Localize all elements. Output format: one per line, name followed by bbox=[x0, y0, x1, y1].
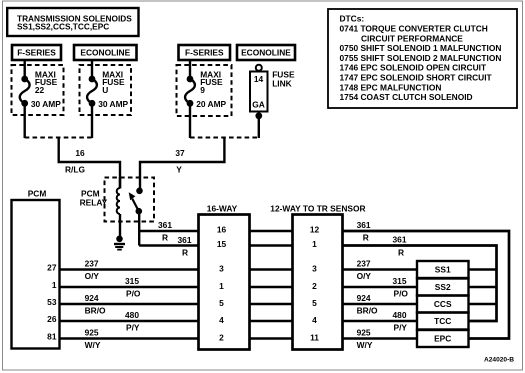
net label 237 O/Y (left) bbox=[85, 259, 100, 282]
svg-text:12: 12 bbox=[310, 225, 320, 235]
wires 16-WAY to 12-WAY (7 rows) bbox=[250, 231, 293, 339]
wire relay switch to rows A/B bbox=[138, 211, 140, 246]
svg-text:11: 11 bbox=[310, 333, 319, 343]
svg-text:3: 3 bbox=[219, 264, 224, 274]
maxi fuse 22 element bbox=[20, 76, 30, 107]
svg-text:5: 5 bbox=[219, 298, 224, 308]
svg-text:P/O: P/O bbox=[126, 289, 141, 299]
svg-text:924: 924 bbox=[85, 293, 99, 303]
svg-text:PCM: PCM bbox=[28, 189, 47, 199]
wire 924 BR/O (PCM 53 to 16-WAY 5) bbox=[60, 303, 199, 305]
svg-text:4: 4 bbox=[312, 315, 317, 325]
svg-text:9: 9 bbox=[200, 85, 205, 95]
svg-text:16: 16 bbox=[75, 148, 85, 158]
svg-text:480: 480 bbox=[125, 310, 139, 320]
svg-text:P/O: P/O bbox=[394, 289, 409, 299]
svg-text:1: 1 bbox=[312, 239, 317, 249]
svg-text:0741 TORQUE CONVERTER CLUTCH: 0741 TORQUE CONVERTER CLUTCH bbox=[340, 24, 488, 34]
svg-text:R: R bbox=[162, 233, 168, 243]
svg-text:1: 1 bbox=[219, 281, 224, 291]
svg-text:BR/O: BR/O bbox=[85, 306, 106, 316]
svg-text:GA: GA bbox=[252, 99, 265, 109]
svg-text:1746 EPC SOLENOID OPEN CIRCUIT: 1746 EPC SOLENOID OPEN CIRCUIT bbox=[340, 63, 487, 73]
wire 361 R row A (relay to 16-WAY) bbox=[139, 230, 198, 232]
value label MAXI FUSE 22 30 AMP bbox=[31, 69, 61, 109]
svg-text:W/Y: W/Y bbox=[85, 340, 101, 350]
value label MAXI FUSE U 30 AMP bbox=[98, 69, 128, 109]
svg-text:27: 27 bbox=[47, 263, 57, 273]
splice bracket (right, dashed) bbox=[190, 137, 259, 139]
value label FUSE LINK bbox=[272, 70, 295, 89]
net label 315 P/O (right) bbox=[393, 276, 409, 299]
net label 37 Y bbox=[175, 148, 185, 175]
wire 480 P/Y (PCM 26 to 16-WAY 4) bbox=[60, 320, 199, 322]
svg-text:ECONOLINE: ECONOLINE bbox=[80, 48, 130, 58]
svg-text:16: 16 bbox=[217, 225, 227, 235]
solenoid CCS bbox=[417, 296, 469, 313]
svg-text:LINK: LINK bbox=[272, 78, 292, 88]
svg-text:0750 SHIFT SOLENOID 1 MALFUNCT: 0750 SHIFT SOLENOID 1 MALFUNCTION bbox=[340, 43, 502, 53]
net label 361 R (row B left) bbox=[178, 235, 192, 257]
ground (relay coil) bbox=[114, 236, 125, 250]
svg-text:A24020-B: A24020-B bbox=[484, 357, 514, 364]
net label 924 BR/O (right) bbox=[357, 293, 378, 316]
title box TRANSMISSION SOLENOIDS bbox=[7, 8, 138, 36]
svg-text:R: R bbox=[363, 233, 369, 243]
net label 16 R/LG bbox=[65, 148, 85, 175]
net label 480 P/Y (right) bbox=[393, 310, 408, 333]
wire fuse link to splice bracket bbox=[258, 116, 260, 138]
svg-text:924: 924 bbox=[357, 293, 371, 303]
fuse link 14 GA element bbox=[250, 65, 268, 120]
svg-text:F-SERIES: F-SERIES bbox=[17, 48, 56, 58]
connector 16-WAY box bbox=[199, 215, 250, 350]
svg-text:CIRCUIT PERFORMANCE: CIRCUIT PERFORMANCE bbox=[361, 33, 463, 43]
PCM relay label bbox=[80, 189, 108, 208]
wire fuse 22 to splice bracket bbox=[24, 103, 26, 138]
svg-text:237: 237 bbox=[85, 259, 99, 269]
svg-text:361: 361 bbox=[357, 220, 371, 230]
wire 315 P/O (PCM 1 to 16-WAY 1) bbox=[60, 286, 199, 288]
wire 924 BR/O (12-WAY 5 to CCS) bbox=[343, 303, 418, 305]
svg-text:5: 5 bbox=[312, 298, 317, 308]
connector label ECONOLINE (left) bbox=[74, 45, 137, 60]
maxi fuse 9 element bbox=[185, 76, 195, 107]
solenoid TCC bbox=[417, 313, 469, 330]
svg-text:W/Y: W/Y bbox=[357, 340, 373, 350]
solenoid SS1 bbox=[417, 261, 469, 278]
svg-text:4: 4 bbox=[219, 315, 224, 325]
wire 361 R row A (12-WAY 12 to EPC feed) bbox=[343, 231, 510, 339]
relay switch contact bbox=[129, 188, 143, 215]
connector 12-WAY box bbox=[293, 215, 343, 350]
wire 16 R/LG (fuses to relay coil) bbox=[59, 138, 120, 189]
svg-text:TCC: TCC bbox=[434, 316, 451, 326]
solenoid SS2 bbox=[417, 279, 469, 296]
connector label ECONOLINE (right) bbox=[237, 45, 295, 60]
svg-text:DTCs:: DTCs: bbox=[340, 14, 365, 24]
svg-text:Y: Y bbox=[176, 165, 182, 175]
svg-text:0755 SHIFT SOLENOID 2 MALFUNCT: 0755 SHIFT SOLENOID 2 MALFUNCTION bbox=[340, 53, 502, 63]
svg-text:1748 EPC MALFUNCTION: 1748 EPC MALFUNCTION bbox=[340, 82, 442, 92]
wire from ECONOLINE to fuse U bbox=[91, 60, 93, 79]
svg-text:925: 925 bbox=[357, 328, 371, 338]
wire from F-SERIES to fuse 9 bbox=[189, 60, 191, 79]
maxi fuse U element bbox=[87, 76, 97, 107]
svg-text:P/Y: P/Y bbox=[126, 323, 140, 333]
svg-text:1754 COAST CLUTCH SOLENOID: 1754 COAST CLUTCH SOLENOID bbox=[340, 92, 473, 102]
wire 361 R row B (12-WAY 1 to solenoid feed bus) bbox=[343, 246, 497, 322]
svg-text:26: 26 bbox=[47, 314, 57, 324]
net label 480 P/Y (left) bbox=[125, 310, 140, 333]
svg-text:BR/O: BR/O bbox=[357, 306, 378, 316]
svg-text:O/Y: O/Y bbox=[357, 271, 372, 281]
maxi fuse 22 dashed enclosure bbox=[12, 65, 64, 115]
wire SS2 to feed bus bbox=[469, 286, 497, 288]
wire 237 O/Y (PCM 27 to 16-WAY 3) bbox=[60, 268, 199, 270]
svg-text:30 AMP: 30 AMP bbox=[98, 99, 128, 109]
svg-text:22: 22 bbox=[35, 85, 45, 95]
svg-text:15: 15 bbox=[217, 239, 227, 249]
svg-text:315: 315 bbox=[125, 276, 139, 286]
splice bracket (left, dashed) bbox=[25, 137, 93, 139]
svg-text:EPC: EPC bbox=[434, 334, 451, 344]
PCM box bbox=[12, 200, 60, 349]
wire from F-SERIES to fuse 22 bbox=[24, 60, 26, 79]
svg-text:37: 37 bbox=[175, 148, 185, 158]
wire fuse U to splice bracket bbox=[91, 103, 93, 138]
svg-text:ECONOLINE: ECONOLINE bbox=[241, 48, 291, 58]
svg-text:30 AMP: 30 AMP bbox=[31, 99, 61, 109]
net label 925 W/Y (left) bbox=[85, 328, 101, 351]
value label MAXI FUSE 9 20 AMP bbox=[196, 69, 226, 109]
svg-text:1: 1 bbox=[52, 280, 57, 290]
wire 925 W/Y (PCM 81 to 16-WAY 2) bbox=[60, 337, 199, 339]
svg-text:O/Y: O/Y bbox=[85, 271, 100, 281]
svg-text:315: 315 bbox=[393, 276, 407, 286]
wire fuse 9 to splice bracket bbox=[189, 103, 191, 138]
svg-text:925: 925 bbox=[85, 328, 99, 338]
relay coil bbox=[117, 177, 120, 236]
wire 480 P/Y (12-WAY 4 to TCC) bbox=[343, 320, 418, 322]
svg-text:20 AMP: 20 AMP bbox=[196, 99, 226, 109]
svg-text:R: R bbox=[398, 247, 404, 257]
net label 237 O/Y (right) bbox=[357, 259, 372, 282]
svg-text:R/LG: R/LG bbox=[65, 165, 85, 175]
svg-text:16-WAY: 16-WAY bbox=[207, 203, 238, 213]
wire 925 W/Y (12-WAY 11 to EPC) bbox=[343, 337, 418, 339]
wire 237 O/Y (12-WAY 3 to SS1) bbox=[343, 268, 418, 270]
net label 361 R (row B right) bbox=[393, 235, 407, 258]
wire CCS to feed bus bbox=[469, 303, 497, 305]
svg-text:CCS: CCS bbox=[434, 299, 452, 309]
svg-text:SS2: SS2 bbox=[435, 282, 451, 292]
net label 361 R (row A right) bbox=[357, 220, 371, 243]
net label 924 BR/O (left) bbox=[85, 293, 106, 316]
wire SS1 to feed bus bbox=[469, 268, 497, 270]
svg-text:361: 361 bbox=[178, 235, 192, 245]
solenoid EPC bbox=[417, 330, 469, 347]
wire 315 P/O (12-WAY 2 to SS2) bbox=[343, 286, 418, 288]
svg-text:2: 2 bbox=[219, 333, 224, 343]
svg-text:361: 361 bbox=[393, 235, 407, 245]
DTC list box bbox=[328, 9, 517, 108]
svg-text:2: 2 bbox=[312, 281, 317, 291]
svg-text:3: 3 bbox=[312, 264, 317, 274]
svg-text:1747 EPC SOLENOID SHORT CIRCUI: 1747 EPC SOLENOID SHORT CIRCUIT bbox=[340, 73, 493, 83]
maxi fuse U dashed enclosure bbox=[80, 65, 132, 115]
svg-text:SS1: SS1 bbox=[435, 265, 451, 275]
net label 361 R (row A left) bbox=[158, 220, 172, 243]
svg-text:53: 53 bbox=[47, 297, 57, 307]
wire 361 R row B (relay to 16-WAY) bbox=[139, 244, 198, 246]
svg-text:R: R bbox=[182, 247, 188, 257]
maxi fuse 9 dashed enclosure bbox=[177, 65, 232, 116]
PCM relay dashed enclosure bbox=[105, 178, 155, 222]
svg-text:237: 237 bbox=[357, 259, 371, 269]
connector label F-SERIES (right) bbox=[179, 45, 231, 60]
svg-text:361: 361 bbox=[158, 220, 172, 230]
svg-text:U: U bbox=[102, 85, 108, 95]
svg-text:F-SERIES: F-SERIES bbox=[185, 48, 224, 58]
svg-text:SS1,SS2,CCS,TCC,EPC: SS1,SS2,CCS,TCC,EPC bbox=[17, 22, 109, 32]
wire 37 Y (fuses to relay switch) bbox=[140, 138, 224, 192]
net label 315 P/O (left) bbox=[125, 276, 141, 299]
svg-text:12-WAY TO TR SENSOR: 12-WAY TO TR SENSOR bbox=[270, 203, 365, 213]
net label 925 W/Y (right) bbox=[357, 328, 373, 351]
connector label F-SERIES (left) bbox=[12, 45, 61, 60]
svg-text:P/Y: P/Y bbox=[394, 323, 408, 333]
svg-text:81: 81 bbox=[47, 332, 57, 342]
svg-text:14: 14 bbox=[254, 74, 264, 84]
svg-text:480: 480 bbox=[393, 310, 407, 320]
svg-text:RELAY: RELAY bbox=[80, 198, 108, 208]
